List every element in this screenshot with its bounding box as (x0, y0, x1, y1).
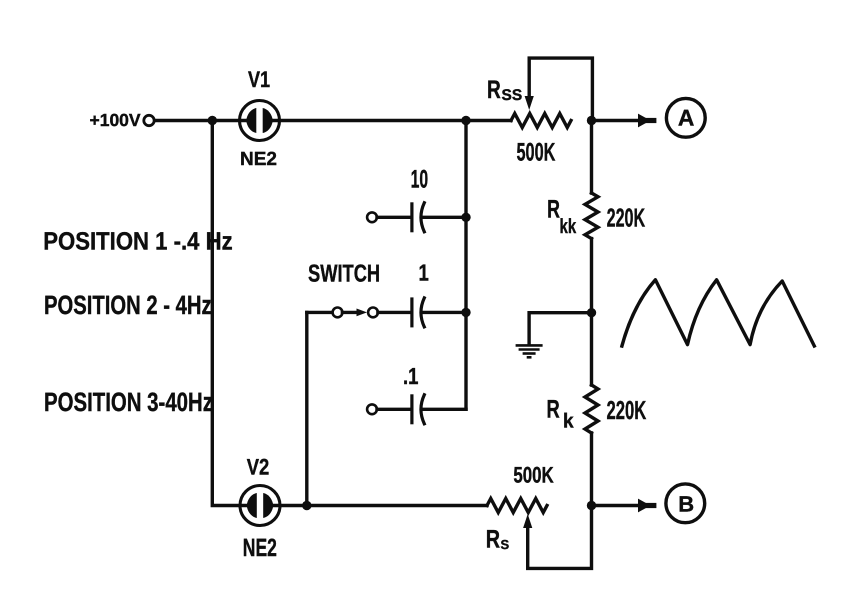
junction cap bus / top rail (461, 116, 470, 125)
wire Rk down to bottom rail (590, 433, 593, 506)
ground (516, 345, 543, 357)
node A (666, 98, 705, 137)
junction Rss loop / top rail (587, 116, 596, 125)
svg-text:kk: kk (560, 215, 577, 238)
svg-text:SS: SS (502, 87, 523, 104)
junction bottom rail / Rk loop (587, 501, 596, 510)
svg-text:.1: .1 (403, 363, 419, 389)
svg-text:SWITCH: SWITCH (308, 261, 380, 288)
wire bottom rail V2 to Rs (270, 504, 488, 507)
svg-text:220K: 220K (607, 395, 647, 425)
svg-text:A: A (678, 105, 694, 131)
svg-text:R: R (547, 396, 560, 424)
junction cap10 / bus (461, 213, 470, 222)
svg-text:NE2: NE2 (240, 149, 277, 170)
wire top rail from V1 to Rss (269, 119, 511, 122)
sawtooth waveform (622, 280, 814, 346)
svg-text:V2: V2 (247, 455, 270, 480)
svg-text:POSITION 2 - 4Hz: POSITION 2 - 4Hz (44, 290, 212, 320)
label RSS (487, 76, 522, 104)
junction switch bus / bottom rail (302, 501, 311, 510)
label RS (486, 526, 510, 554)
svg-text:500K: 500K (517, 139, 556, 167)
capacitor .1 (367, 394, 466, 424)
svg-text:R: R (487, 76, 501, 104)
wire from top rail junction down to Rkk (590, 121, 593, 194)
svg-text:10: 10 (411, 166, 429, 194)
svg-text:S: S (501, 537, 510, 552)
junction cap1 / bus (461, 308, 470, 317)
svg-text:B: B (678, 491, 694, 516)
svg-text:500K: 500K (513, 463, 554, 488)
label Rkk (547, 196, 576, 238)
svg-text:R: R (547, 196, 560, 224)
wire top rail from +100V to lamp V1 (155, 119, 250, 122)
node B (666, 484, 705, 523)
capacitor 1 (378, 297, 466, 327)
resistor Rk 220K (585, 385, 598, 433)
svg-text:POSITION 1 -.4 Hz: POSITION 1 -.4 Hz (43, 228, 232, 256)
wire capacitor bus vertical (464, 121, 467, 410)
junction left bus / top rail (208, 116, 217, 125)
switch (307, 308, 378, 318)
label Rk (547, 396, 575, 433)
svg-text:1: 1 (419, 260, 429, 286)
wire switch bus vertical (305, 312, 308, 505)
svg-text:k: k (563, 410, 574, 433)
resistor Rkk 220K (585, 193, 598, 239)
svg-text:R: R (486, 526, 500, 554)
node +100V terminal (90, 110, 155, 130)
potentiometer RS 500K (487, 499, 592, 569)
junction ground tee (587, 308, 596, 317)
wire ground stub (529, 313, 591, 344)
wire ground junction down to Rk (590, 313, 593, 385)
capacitor 10 (367, 202, 466, 232)
svg-text:V1: V1 (248, 67, 270, 92)
svg-text:220K: 220K (607, 203, 646, 233)
svg-text:+100V: +100V (90, 110, 141, 130)
neon lamp V1 (240, 101, 280, 141)
wire left bus vertical (212, 121, 250, 506)
svg-text:NE2: NE2 (243, 534, 277, 562)
potentiometer RSS 500K (511, 58, 592, 127)
wire to node A with arrowhead (595, 114, 654, 128)
svg-text:POSITION 3-40Hz: POSITION 3-40Hz (44, 387, 213, 417)
neon lamp V2 (240, 486, 280, 526)
wire Rkk to ground junction (590, 239, 593, 313)
wire to node B with arrowhead (595, 499, 654, 513)
